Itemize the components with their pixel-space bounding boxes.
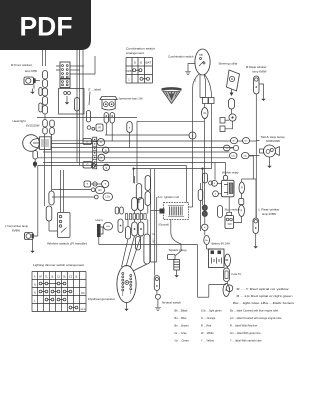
speedometer lamp bulbs (103, 102, 114, 107)
table lighting dimmer switch (32, 272, 87, 312)
pilot lamps in case (64, 92, 71, 95)
wire battery return loop (198, 245, 227, 298)
connector small rings (87, 126, 95, 131)
wire case bullet down (76, 111, 78, 118)
connector cluster capsules lower (125, 222, 143, 250)
wire AG drop (205, 104, 212, 169)
wire fuse chain (225, 260, 228, 284)
svg-text:O ....Orange: O ....Orange (201, 316, 216, 320)
connector pad b left (83, 139, 92, 145)
connector c ring2 (213, 191, 219, 197)
connector W pad (96, 124, 103, 131)
ground neutral switch (157, 305, 159, 308)
connector bullet under headlight (33, 151, 38, 160)
svg-text:Speedometer lamp 1.5W: Speedometer lamp 1.5W (119, 96, 143, 100)
svg-text:Gn ....Green: Gn ....Green (175, 338, 190, 342)
svg-text:Bk ....Black: Bk ....Black (175, 308, 189, 312)
horn (97, 224, 103, 237)
svg-text:R ....Red: R ....Red (201, 323, 212, 327)
battery (209, 249, 225, 268)
connector bullet R fuse (223, 284, 230, 297)
connector pad G left (83, 162, 92, 169)
label R rear winker lamp (246, 65, 267, 74)
svg-text:OFF: OFF (80, 309, 87, 311)
svg-text:Stop switch: Stop switch (225, 207, 240, 211)
svg-text:lamp 6V8W: lamp 6V8W (25, 69, 37, 73)
connector bullet node d (203, 173, 208, 183)
svg-text:A.C. Ignition coil: A.C. Ignition coil (158, 195, 180, 199)
wire horn drop (99, 237, 198, 245)
svg-text:R front winker: R front winker (11, 63, 32, 67)
connector bullet node B (198, 190, 203, 201)
wire cluster verticals (128, 176, 148, 234)
Honda wing emblem (162, 87, 182, 103)
wire T note leader (89, 92, 90, 106)
connector ring node d (209, 181, 213, 185)
svg-text:Y ....label With varnish tub: Y ....label With varnish tube (230, 338, 262, 342)
PDF badge (0, 0, 91, 50)
fuse 7A (224, 268, 230, 282)
label tail stop lamp (261, 135, 286, 143)
wire L rear winker ground lead (255, 234, 257, 241)
winker relay (222, 180, 235, 197)
wire node B (200, 183, 202, 231)
AC ignition coil (160, 203, 189, 220)
node g return (226, 285, 233, 292)
svg-text:Spark plug: Spark plug (169, 248, 188, 252)
connector strip multi-pin (93, 137, 97, 169)
svg-text:Bu ....label Covered with blu: Bu ....label Covered with blue engine tu… (230, 308, 279, 312)
label combination switch arrangement (126, 47, 155, 55)
winker switch box (58, 213, 71, 238)
connector squares lower (220, 118, 225, 132)
svg-text:(Ground): (Ground) (159, 222, 170, 226)
svg-text:L Rear winker: L Rear winker (259, 208, 280, 212)
label R front winker lamp (11, 63, 37, 73)
legend wire color notes upper (233, 288, 295, 305)
ground R front winker (32, 89, 34, 92)
svg-text:Bu....light blue LBu....Dar: Bu....light blue LBu....Dark brown (233, 302, 295, 305)
label L rear winker lamp (259, 208, 280, 217)
connector bullet left of speedometer (86, 111, 90, 123)
svg-text:Fuse 7A: Fuse 7A (232, 272, 242, 276)
svg-text:OFF: OFF (127, 71, 133, 73)
connector pair LBu (230, 153, 250, 159)
wire winker switch chain (49, 221, 58, 231)
wire row Gn (52, 189, 91, 191)
connector ring under collar (229, 114, 236, 121)
headlight case (59, 89, 85, 115)
connector pad small (239, 199, 244, 205)
connector ring neutral (155, 294, 160, 299)
junction node bus-center (132, 168, 134, 170)
svg-text:6V15/15W: 6V15/15W (26, 124, 40, 128)
lamp L rear winker (253, 218, 258, 234)
svg-text:BAT: BAT (146, 61, 152, 64)
legend color codes column 1 (175, 308, 190, 342)
label head light (13, 119, 40, 128)
svg-text:L front winker lamp: L front winker lamp (5, 224, 28, 228)
headlight unit (23, 135, 51, 152)
svg-text:Head light: Head light (13, 119, 26, 123)
wire neutral harness (151, 169, 157, 276)
svg-text:Bu ....Blue: Bu ....Blue (175, 316, 188, 320)
lamp R rear winker (254, 76, 259, 94)
wire R front winker to ground (34, 81, 38, 89)
svg-text:Bn ....Brown: Bn ....Brown (175, 323, 190, 327)
connector block lower (60, 79, 70, 88)
svg-text:AG: AG (203, 112, 207, 115)
ground L front winker (32, 245, 34, 251)
wire c stubs (215, 163, 222, 194)
wire left chain to bus (44, 114, 46, 119)
tail stop lamp (260, 145, 280, 157)
lamp L front winker (25, 233, 34, 240)
wire row T (91, 183, 102, 185)
connector row T pair (84, 180, 109, 187)
svg-text:G: G (86, 163, 88, 167)
svg-text:H: H (34, 283, 36, 286)
connector bullet under collar (228, 99, 234, 110)
connector bullet Bu (204, 236, 210, 245)
connector bullet chain left column (39, 71, 48, 115)
wire left verticals down (45, 134, 52, 206)
svg-text:lamp 6V8W: lamp 6V8W (253, 70, 267, 74)
wire neutral drops (157, 291, 158, 305)
wire badge drop left (43, 50, 46, 66)
junction node bus-battery (201, 168, 203, 170)
connector bullet R upper (239, 182, 245, 194)
wire R front winker feed (36, 80, 40, 82)
wire L front winker (33, 166, 38, 246)
svg-text:HI: HI (39, 275, 42, 278)
connector bullet in case (75, 98, 80, 112)
wire winker switch feeds (61, 170, 64, 213)
svg-text:LGn ....light green: LGn ....light green (201, 308, 222, 312)
connector row Gn pair (91, 187, 104, 194)
svg-text:Combination switch: Combination switch (168, 54, 194, 58)
svg-text:6V8/23W: 6V8/23W (266, 139, 281, 143)
ground headlight case (66, 96, 68, 102)
svg-text:LBu: LBu (231, 155, 235, 157)
connector bullet R battery (225, 254, 231, 267)
svg-text:R ....LG Red spiral on light: R ....LG Red spiral on light green (237, 295, 294, 298)
svg-text:arrangement: arrangement (126, 51, 144, 55)
svg-text:Horn: Horn (96, 218, 104, 222)
wire tail lamp leads (249, 141, 270, 179)
legend color codes column 3 (230, 308, 282, 342)
connector block handlebar switch (60, 62, 70, 79)
connector bullet horn right (118, 219, 123, 233)
connector bullet center e (127, 122, 132, 133)
wire right column (242, 179, 257, 218)
connector ring g1 (103, 147, 109, 153)
connector ring g2 (103, 164, 109, 170)
svg-text:W ....White: W ....White (201, 331, 214, 335)
svg-text:Steering collar: Steering collar (219, 61, 238, 65)
connector small bullets pair (115, 207, 123, 214)
wire relay feed (225, 163, 227, 176)
wire combination switch drops (193, 74, 212, 207)
connector cluster capsules upper (136, 176, 150, 206)
svg-text:Tail & stop lamp: Tail & stop lamp (261, 135, 286, 139)
svg-text:6V8W: 6V8W (12, 229, 20, 233)
svg-text:Gr ....Gray: Gr ....Gray (175, 331, 188, 335)
speedometer housing (100, 97, 117, 111)
svg-text:R Rear winker: R Rear winker (246, 65, 267, 69)
legend color codes column 2 (201, 308, 222, 342)
wire battery column (203, 121, 213, 249)
wire R rear winker ground lead (259, 84, 264, 93)
flywheel generator (117, 265, 136, 302)
connector bullets under speedometer (104, 113, 114, 124)
connector pair O (224, 145, 239, 151)
connector squares pair (203, 98, 215, 104)
node a bus terminal (189, 132, 196, 139)
connector row LGn pair (94, 193, 112, 201)
connector bullet neutral (154, 276, 159, 291)
ground flywheel generator (126, 303, 128, 309)
wire block stubs (56, 56, 95, 74)
label L front winker lamp (5, 224, 28, 233)
connector bullet R lower (239, 205, 245, 217)
connector bullet left of stop switch (218, 206, 223, 218)
wire e drop (129, 133, 131, 148)
wire row LGn (52, 196, 94, 198)
svg-text:Battery 6V 2AH: Battery 6V 2AH (212, 242, 231, 246)
connector c ring1 (212, 180, 218, 186)
ground L rear winker (255, 241, 257, 247)
svg-text:lamp 6V8W: lamp 6V8W (262, 212, 276, 216)
svg-text:LGn: LGn (105, 196, 110, 199)
svg-text:(B ... LGn: (B ... LGn (152, 233, 154, 244)
wire generator feeds (122, 236, 147, 271)
connector comb squares (125, 214, 146, 220)
svg-text:Flywheel generator: Flywheel generator (88, 297, 115, 301)
junction headlight ground blob (33, 161, 37, 166)
svg-text:Winker relay: Winker relay (222, 170, 239, 174)
ground tail lamp (269, 160, 271, 166)
wire center drop from junction (133, 169, 135, 183)
combination switch unit (195, 49, 210, 75)
wire headlight leads (51, 141, 96, 144)
wire R rear harness (255, 94, 257, 218)
svg-text:R ....label With Red line: R ....label With Red line (230, 323, 258, 327)
svg-text:Gn ....label With green line: Gn ....label With green line (230, 331, 261, 335)
connector ring small (91, 163, 95, 167)
wire main harness bus (37, 118, 256, 203)
wire badge drop right (77, 50, 83, 166)
connector pair Bn (231, 138, 250, 144)
connector dark bullets pair (202, 205, 207, 217)
svg-text:PDF: PDF (20, 12, 73, 42)
connector sleeve long (144, 234, 150, 264)
connector ring e (202, 224, 208, 230)
wire speedometer drops (106, 123, 112, 141)
ground spark plug (176, 270, 178, 275)
wire headlight ground stub (34, 159, 36, 168)
svg-text:E: E (140, 60, 142, 64)
stop switch (225, 212, 234, 228)
svg-text:Neutral switch: Neutral switch (162, 301, 181, 305)
table combination switch arrangement (126, 58, 153, 84)
svg-text:Lighting dimmer switch arrange: Lighting dimmer switch arrangement (33, 263, 84, 267)
connector cluster capsules mid (132, 198, 144, 211)
wire combination switch left (188, 64, 195, 69)
wire coil leads (151, 207, 193, 211)
connector bullets right of winker switch (46, 191, 54, 221)
connector bullets below bus left (43, 120, 55, 135)
svg-text:N: N (34, 291, 36, 294)
wire steering collar arrow (230, 89, 234, 96)
ground R rear winker (263, 93, 265, 99)
connector bullet AG (202, 108, 209, 119)
connector ring b1 (97, 139, 104, 146)
svg-text:(T ....label): (T ....label) (88, 87, 101, 91)
svg-text:Winker switch (R handle): Winker switch (R handle) (47, 241, 87, 245)
lamp R front winker (24, 77, 36, 85)
wire collar stubs (225, 109, 233, 129)
connector ring b2 (98, 154, 105, 161)
svg-text:LBu: LBu (243, 155, 247, 157)
svg-text:R ....Y Red spiral on yellow: R ....Y Red spiral on yellow (237, 288, 289, 291)
svg-text:G: G (134, 60, 136, 64)
connector LGn horn (104, 223, 113, 231)
wire high tension cord (171, 220, 181, 256)
svg-text:Y ....Yellow: Y ....Yellow (201, 338, 214, 342)
steering collar (227, 70, 240, 91)
svg-text:LG ....label Covered with ora: LG ....label Covered with orange engine … (230, 316, 282, 320)
svg-text:O: O (226, 148, 228, 150)
wire stop switch (229, 197, 241, 223)
ground combination switch (187, 69, 189, 72)
connector relay top (223, 175, 227, 180)
svg-text:ON: ON (81, 293, 85, 295)
spark plug (168, 255, 180, 271)
